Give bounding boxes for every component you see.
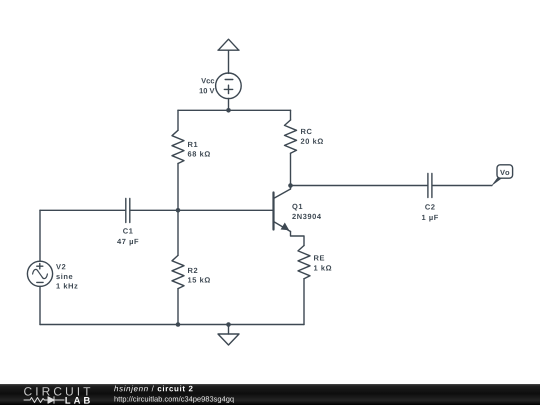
wire <box>177 289 179 325</box>
footer url <box>115 396 234 403</box>
wire <box>40 324 304 326</box>
label Vcc 10 V <box>200 78 215 93</box>
wire <box>178 109 291 111</box>
resistor RE <box>298 246 310 279</box>
resistor R1 <box>172 130 184 163</box>
wire <box>228 99 230 111</box>
ground <box>218 325 239 346</box>
node B junction dot <box>176 208 181 213</box>
resistor R2 <box>172 255 184 288</box>
wire <box>290 153 292 189</box>
label R1 68 kΩ <box>188 142 210 157</box>
label R2 15 kΩ <box>188 268 210 283</box>
wire <box>40 209 125 211</box>
capacitor C1 <box>126 199 130 223</box>
capacitor C2 <box>428 174 432 198</box>
output flag Vo <box>491 165 513 186</box>
label RC 20 kΩ <box>301 129 323 144</box>
resistor RC <box>285 120 297 153</box>
footer bar <box>0 384 540 405</box>
junction dot <box>176 322 181 327</box>
label RE 1 kΩ <box>314 255 331 270</box>
wire <box>177 164 179 211</box>
junction dot <box>226 108 231 113</box>
voltage source V2 <box>27 261 52 286</box>
wire <box>177 110 179 130</box>
wire <box>177 210 179 255</box>
junction dot <box>288 183 293 188</box>
wire <box>291 232 305 246</box>
wire <box>303 279 305 325</box>
CircuitLab logo <box>24 387 90 403</box>
CircuitLab logo squiggle <box>24 397 64 403</box>
wire <box>131 209 178 211</box>
voltage source Vcc <box>216 73 242 99</box>
label C2 1 µF <box>422 204 438 221</box>
junction dot <box>226 322 231 327</box>
wire <box>291 185 428 187</box>
power flag Vcc <box>218 39 239 50</box>
transistor Q1 <box>274 189 291 232</box>
wire <box>228 50 230 73</box>
label Q1 2N3904 <box>292 204 321 219</box>
wire <box>178 209 273 211</box>
wire <box>39 286 41 324</box>
label C1 47 µF <box>117 228 138 245</box>
wire <box>290 110 292 120</box>
label V2 sine 1 kHz <box>56 264 77 288</box>
wire <box>39 210 41 261</box>
footer title hsinjenn / circuit 2 <box>114 386 192 393</box>
wire <box>433 185 492 187</box>
